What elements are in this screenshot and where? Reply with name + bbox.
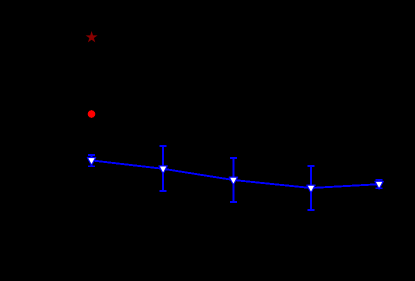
error bar stems (92, 146, 380, 210)
error bar caps (88, 146, 383, 210)
marker P4 triangle (307, 185, 315, 193)
red star marker (87, 33, 96, 41)
marker P1 triangle (87, 158, 95, 166)
data line (92, 160, 380, 188)
red circle marker (88, 110, 95, 117)
marker P3 triangle (229, 177, 237, 185)
marker P5 triangle (375, 181, 383, 189)
marker P2 triangle (159, 166, 167, 174)
